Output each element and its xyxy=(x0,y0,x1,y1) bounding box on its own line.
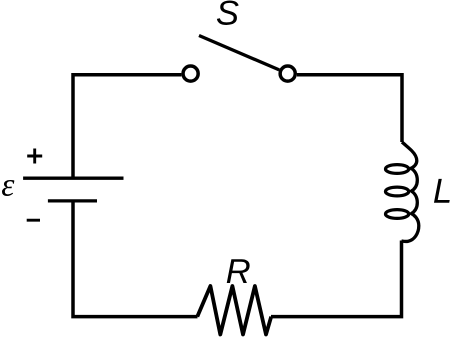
battery minus sign xyxy=(27,219,40,222)
wire: right vertical lower + bottom-right horizontal xyxy=(271,241,402,317)
wire: top-right horizontal + right vertical upper xyxy=(297,75,402,142)
switch right terminal circle xyxy=(280,66,295,81)
switch blade xyxy=(199,36,279,70)
inductor L entry arc xyxy=(402,142,417,169)
battery bottom plate (negative, short) xyxy=(48,199,97,202)
switch left terminal circle xyxy=(183,66,198,81)
wire: bottom-left horizontal + left vertical lower xyxy=(73,201,198,317)
battery top plate (positive, long) xyxy=(23,177,123,180)
label L xyxy=(434,179,450,203)
inductor loop 1 xyxy=(386,165,409,174)
inductor connector 1-2 xyxy=(411,168,418,192)
resistor R zigzag xyxy=(197,286,271,335)
inductor loop 2 xyxy=(386,187,409,196)
label epsilon (EMF) xyxy=(2,180,14,196)
inductor exit arc xyxy=(402,213,419,241)
label S xyxy=(217,0,239,25)
inductor loop 3 xyxy=(386,210,409,219)
label R xyxy=(227,259,250,283)
inductor connector 2-3 xyxy=(411,191,418,215)
battery plus sign xyxy=(27,149,42,164)
wire: left vertical + top-left horizontal xyxy=(73,75,181,179)
